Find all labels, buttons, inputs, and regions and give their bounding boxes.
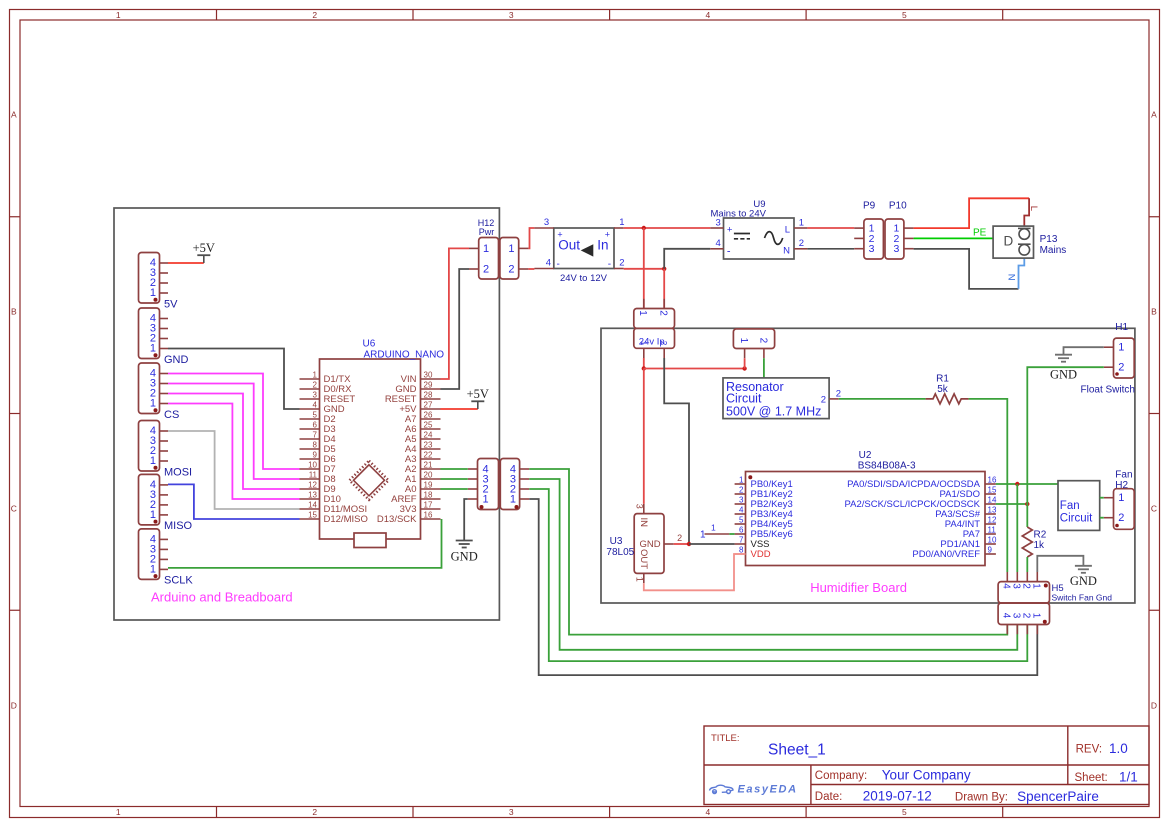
svg-text:10: 10	[988, 536, 997, 545]
svg-text:5: 5	[902, 807, 907, 817]
svg-text:2: 2	[312, 807, 317, 817]
svg-text:GND: GND	[164, 354, 189, 366]
svg-text:6: 6	[739, 526, 744, 535]
svg-text:2: 2	[677, 533, 682, 543]
svg-text:Sheet:: Sheet:	[1075, 772, 1108, 784]
svg-text:8: 8	[313, 441, 318, 450]
svg-text:3: 3	[635, 504, 645, 509]
svg-text:28: 28	[424, 391, 433, 400]
svg-text:24V to 12V: 24V to 12V	[560, 273, 608, 284]
svg-text:2: 2	[799, 238, 804, 249]
svg-text:TITLE:: TITLE:	[711, 733, 740, 744]
svg-text:A: A	[11, 110, 17, 120]
svg-text:17: 17	[424, 501, 433, 510]
svg-text:R1: R1	[936, 374, 949, 385]
svg-text:4: 4	[706, 807, 711, 817]
svg-text:3: 3	[894, 243, 900, 255]
svg-text:30: 30	[424, 371, 433, 380]
svg-text:GND: GND	[1050, 368, 1077, 382]
svg-text:P10: P10	[889, 201, 907, 212]
svg-text:Pwr: Pwr	[479, 227, 495, 237]
svg-text:Circuit: Circuit	[1060, 513, 1093, 525]
svg-text:1: 1	[116, 10, 121, 20]
svg-text:1: 1	[637, 310, 648, 316]
svg-text:+: +	[727, 225, 733, 236]
svg-text:Fan: Fan	[1060, 500, 1080, 512]
svg-text:3: 3	[739, 496, 744, 505]
svg-text:4: 4	[546, 258, 551, 269]
svg-text:R2: R2	[1034, 530, 1047, 541]
svg-text:20: 20	[424, 471, 433, 480]
svg-text:4: 4	[1001, 613, 1012, 619]
svg-text:2: 2	[508, 264, 514, 276]
svg-text:Float Switch: Float Switch	[1081, 384, 1135, 395]
svg-text:2: 2	[836, 388, 841, 399]
svg-text:D12/MISO: D12/MISO	[324, 514, 368, 525]
svg-text:3: 3	[1011, 613, 1022, 619]
svg-text:A: A	[1151, 110, 1157, 120]
svg-text:16: 16	[424, 511, 433, 520]
svg-text:4: 4	[716, 238, 721, 249]
svg-text:3: 3	[1011, 583, 1022, 589]
svg-text:78L05: 78L05	[606, 547, 634, 558]
svg-text:1: 1	[150, 455, 156, 467]
svg-text:11: 11	[309, 471, 318, 480]
svg-text:GND: GND	[1070, 574, 1097, 588]
svg-text:Humidifier Board: Humidifier Board	[810, 580, 907, 595]
svg-text:OUT: OUT	[638, 549, 649, 569]
svg-text:16: 16	[988, 476, 997, 485]
svg-text:MOSI: MOSI	[164, 466, 192, 478]
svg-text:D: D	[11, 700, 17, 710]
svg-text:U6: U6	[363, 339, 376, 350]
svg-text:4: 4	[313, 401, 318, 410]
svg-text:U3: U3	[610, 536, 623, 547]
svg-text:1: 1	[150, 287, 156, 299]
svg-text:5: 5	[313, 411, 318, 420]
svg-text:H1: H1	[1115, 322, 1128, 333]
svg-text:15: 15	[988, 486, 997, 495]
svg-text:ARDUINO_NANO: ARDUINO_NANO	[364, 350, 445, 361]
svg-text:13: 13	[308, 491, 317, 500]
svg-text:4: 4	[706, 10, 711, 20]
svg-text:26: 26	[424, 411, 433, 420]
svg-text:1: 1	[150, 564, 156, 576]
svg-text:12: 12	[988, 516, 997, 525]
svg-text:2: 2	[1118, 512, 1124, 524]
svg-text:2: 2	[1021, 583, 1032, 589]
svg-text:3: 3	[509, 807, 514, 817]
svg-text:2: 2	[1021, 613, 1032, 619]
svg-text:5: 5	[902, 10, 907, 20]
svg-text:D: D	[1004, 234, 1014, 249]
svg-text:IN: IN	[638, 518, 649, 528]
svg-text:2: 2	[659, 341, 668, 346]
svg-text:2: 2	[483, 264, 489, 276]
svg-text:CS: CS	[164, 409, 179, 421]
svg-text:Drawn By:: Drawn By:	[955, 792, 1008, 804]
svg-text:+5V: +5V	[467, 387, 489, 401]
svg-text:1: 1	[738, 338, 749, 344]
svg-text:B: B	[11, 307, 17, 317]
svg-text:1: 1	[313, 371, 318, 380]
svg-text:12: 12	[308, 481, 317, 490]
svg-text:2: 2	[619, 258, 624, 269]
svg-text:2: 2	[312, 10, 317, 20]
svg-text:25: 25	[424, 421, 433, 430]
svg-text:13: 13	[988, 506, 997, 515]
svg-text:1: 1	[116, 807, 121, 817]
svg-text:2019-07-12: 2019-07-12	[863, 789, 932, 804]
svg-text:Mains: Mains	[1040, 245, 1067, 256]
svg-text:22: 22	[424, 451, 433, 460]
svg-text:3: 3	[313, 391, 318, 400]
svg-text:1: 1	[508, 243, 514, 255]
svg-text:-: -	[608, 259, 611, 270]
svg-text:1: 1	[150, 398, 156, 410]
svg-text:Sheet_1: Sheet_1	[768, 742, 826, 759]
svg-text:Mains to 24V: Mains to 24V	[711, 209, 767, 220]
svg-text:18: 18	[424, 491, 433, 500]
svg-text:3: 3	[869, 243, 875, 255]
svg-text:Circuit: Circuit	[726, 392, 762, 406]
svg-text:+5V: +5V	[193, 241, 215, 255]
svg-text:2: 2	[757, 338, 768, 344]
svg-text:REV:: REV:	[1076, 744, 1102, 756]
svg-text:1: 1	[483, 494, 489, 506]
svg-text:1.0: 1.0	[1109, 741, 1128, 756]
svg-text:6: 6	[313, 421, 318, 430]
svg-text:1: 1	[150, 343, 156, 355]
svg-text:Out: Out	[558, 238, 580, 253]
svg-text:11: 11	[988, 526, 997, 535]
svg-text:MISO: MISO	[164, 520, 193, 532]
svg-text:-: -	[727, 245, 731, 257]
svg-text:5: 5	[739, 516, 744, 525]
svg-text:10: 10	[308, 461, 317, 470]
svg-text:7: 7	[313, 431, 318, 440]
svg-text:3: 3	[544, 217, 549, 228]
svg-text:1: 1	[739, 476, 744, 485]
svg-text:29: 29	[424, 381, 433, 390]
svg-text:500V @ 1.7 MHz: 500V @ 1.7 MHz	[726, 405, 821, 419]
svg-text:27: 27	[424, 401, 433, 410]
svg-text:9: 9	[988, 546, 993, 555]
svg-text:In: In	[597, 238, 608, 253]
svg-text:19: 19	[424, 481, 433, 490]
svg-text:D13/SCK: D13/SCK	[377, 514, 417, 525]
svg-text:C: C	[11, 504, 17, 514]
svg-text:1: 1	[150, 509, 156, 521]
svg-text:1: 1	[1118, 342, 1124, 354]
svg-text:PE: PE	[973, 228, 987, 239]
svg-text:1: 1	[799, 217, 804, 228]
svg-text:N: N	[783, 245, 790, 256]
svg-text:14: 14	[988, 496, 997, 505]
svg-text:1k: 1k	[1034, 540, 1046, 551]
svg-text:1: 1	[700, 530, 706, 541]
svg-text:Arduino and Breadboard: Arduino and Breadboard	[151, 590, 293, 605]
svg-text:C: C	[1151, 504, 1157, 514]
svg-text:P13: P13	[1040, 234, 1058, 245]
svg-text:24: 24	[424, 431, 433, 440]
svg-text:Date:: Date:	[815, 791, 843, 803]
svg-text:BS84B08A-3: BS84B08A-3	[858, 460, 916, 471]
svg-text:1: 1	[1031, 613, 1042, 619]
svg-text:1/1: 1/1	[1119, 770, 1138, 785]
svg-text:L: L	[1028, 206, 1039, 211]
svg-text:7: 7	[739, 536, 744, 545]
svg-text:5V: 5V	[164, 298, 178, 310]
svg-text:PD0/AN0/VREF: PD0/AN0/VREF	[912, 549, 980, 560]
svg-text:2: 2	[739, 486, 744, 495]
svg-text:1: 1	[1118, 492, 1124, 504]
svg-text:1: 1	[510, 494, 516, 506]
svg-text:2: 2	[1118, 362, 1124, 374]
svg-text:2: 2	[658, 310, 669, 316]
svg-text:4: 4	[1001, 583, 1012, 589]
svg-text:14: 14	[308, 501, 317, 510]
svg-text:-: -	[557, 259, 560, 270]
svg-text:21: 21	[424, 461, 433, 470]
svg-text:Your Company: Your Company	[882, 768, 971, 783]
svg-text:L: L	[785, 225, 790, 236]
svg-text:2: 2	[313, 381, 318, 390]
svg-text:B: B	[1151, 307, 1157, 317]
svg-text:EasyEDA: EasyEDA	[738, 784, 798, 796]
svg-text:1: 1	[639, 341, 648, 346]
svg-text:D: D	[1151, 700, 1157, 710]
svg-text:Company:: Company:	[815, 770, 867, 782]
svg-text:SpencerPaire: SpencerPaire	[1017, 789, 1099, 804]
svg-text:P9: P9	[863, 201, 876, 212]
svg-text:1: 1	[1031, 583, 1042, 589]
svg-text:15: 15	[308, 511, 317, 520]
svg-text:4: 4	[739, 506, 744, 515]
svg-text:N: N	[1005, 274, 1016, 281]
svg-text:1: 1	[483, 243, 489, 255]
svg-text:1: 1	[635, 577, 645, 582]
svg-text:5k: 5k	[937, 384, 949, 395]
svg-text:Switch Fan Gnd: Switch Fan Gnd	[1052, 593, 1113, 603]
svg-text:VDD: VDD	[751, 549, 771, 560]
svg-text:1: 1	[619, 217, 624, 228]
svg-text:GND: GND	[451, 550, 478, 564]
svg-text:3: 3	[509, 10, 514, 20]
svg-text:SCLK: SCLK	[164, 575, 193, 587]
svg-text:2: 2	[821, 395, 826, 406]
svg-text:1: 1	[711, 523, 716, 533]
svg-text:23: 23	[424, 441, 433, 450]
svg-text:9: 9	[313, 451, 318, 460]
